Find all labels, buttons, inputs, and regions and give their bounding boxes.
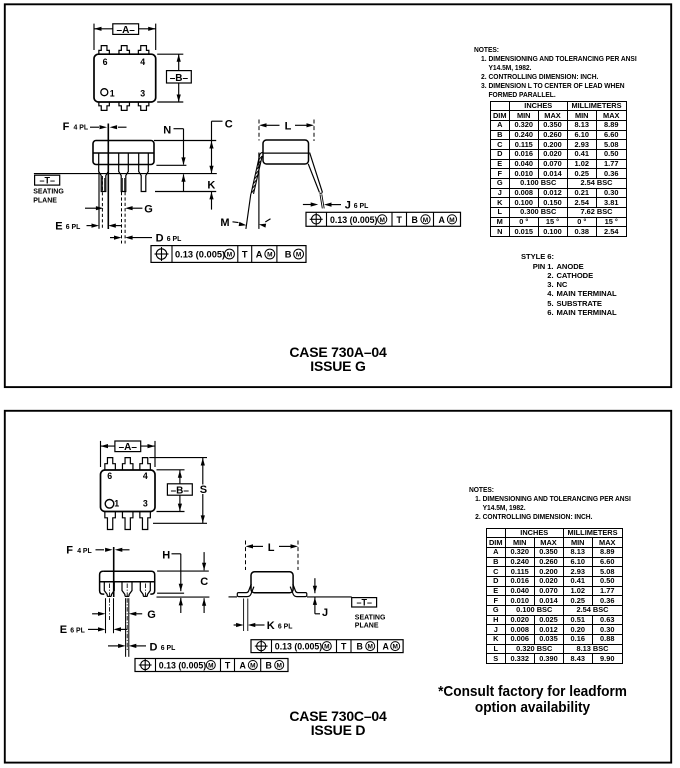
svg-text:N: N — [163, 125, 171, 137]
svg-text:A: A — [256, 250, 263, 260]
svg-text:M: M — [423, 217, 428, 224]
svg-text:0.13 (0.005): 0.13 (0.005) — [175, 250, 225, 260]
svg-text:M: M — [392, 644, 397, 651]
svg-text:SEATING: SEATING — [355, 615, 386, 622]
svg-text:6 PL: 6 PL — [70, 628, 85, 635]
svg-text:M: M — [220, 217, 229, 229]
svg-text:G: G — [147, 609, 156, 621]
svg-text:1: 1 — [114, 499, 119, 509]
svg-text:L: L — [285, 121, 292, 133]
svg-text:D: D — [150, 641, 158, 653]
svg-text:T: T — [225, 660, 231, 670]
svg-text:B: B — [266, 660, 272, 670]
svg-text:4: 4 — [140, 57, 145, 67]
svg-text:E: E — [55, 221, 62, 233]
svg-text:M: M — [379, 217, 384, 224]
svg-text:F: F — [66, 545, 73, 557]
svg-text:A: A — [383, 642, 390, 652]
svg-text:–B–: –B– — [170, 73, 189, 84]
svg-text:PLANE: PLANE — [355, 623, 379, 630]
svg-text:J: J — [322, 607, 328, 619]
svg-text:6: 6 — [107, 471, 112, 481]
svg-text:–A–: –A– — [119, 442, 138, 453]
svg-text:M: M — [324, 644, 329, 651]
svg-text:SEATING: SEATING — [33, 189, 64, 196]
svg-text:J: J — [345, 200, 351, 212]
svg-text:B: B — [357, 642, 363, 652]
svg-text:S: S — [200, 484, 207, 496]
svg-text:6 PL: 6 PL — [278, 623, 293, 630]
svg-text:K: K — [267, 620, 275, 632]
svg-text:E: E — [60, 624, 67, 636]
svg-text:–B–: –B– — [171, 485, 190, 496]
svg-text:T: T — [397, 215, 403, 225]
svg-text:–T–: –T– — [356, 598, 372, 608]
svg-text:C: C — [200, 576, 208, 588]
svg-text:M: M — [227, 252, 232, 259]
svg-text:M: M — [367, 644, 372, 651]
svg-text:6 PL: 6 PL — [161, 645, 176, 652]
svg-text:D: D — [156, 233, 164, 245]
svg-text:A: A — [240, 660, 247, 670]
svg-text:B: B — [285, 250, 292, 260]
svg-text:PLANE: PLANE — [33, 197, 57, 204]
svg-text:–T–: –T– — [39, 175, 55, 185]
svg-text:T: T — [341, 642, 347, 652]
svg-text:M: M — [208, 663, 213, 670]
svg-text:B: B — [412, 215, 418, 225]
svg-text:0.13 (0.005): 0.13 (0.005) — [275, 642, 323, 652]
svg-text:M: M — [449, 217, 454, 224]
svg-text:L: L — [268, 542, 275, 554]
svg-text:M: M — [276, 663, 281, 670]
svg-text:6 PL: 6 PL — [354, 203, 369, 210]
svg-text:M: M — [267, 252, 272, 259]
svg-text:3: 3 — [143, 499, 148, 509]
svg-text:4 PL: 4 PL — [74, 124, 89, 131]
svg-text:1: 1 — [110, 88, 115, 98]
svg-text:T: T — [242, 250, 248, 260]
svg-text:4: 4 — [143, 471, 148, 481]
svg-text:0.13 (0.005): 0.13 (0.005) — [159, 660, 207, 670]
svg-text:A: A — [439, 215, 446, 225]
svg-text:F: F — [63, 121, 70, 133]
svg-text:6 PL: 6 PL — [66, 224, 81, 231]
svg-text:K: K — [207, 179, 215, 191]
svg-text:4 PL: 4 PL — [77, 548, 92, 555]
svg-text:3: 3 — [140, 88, 145, 98]
svg-text:0.13 (0.005): 0.13 (0.005) — [330, 215, 378, 225]
svg-text:M: M — [296, 252, 301, 259]
svg-text:6 PL: 6 PL — [167, 236, 182, 243]
svg-text:H: H — [162, 550, 170, 562]
svg-text:M: M — [250, 663, 255, 670]
svg-text:–A–: –A– — [117, 25, 136, 36]
svg-text:C: C — [225, 118, 233, 130]
svg-text:G: G — [144, 203, 153, 215]
svg-text:6: 6 — [103, 57, 108, 67]
